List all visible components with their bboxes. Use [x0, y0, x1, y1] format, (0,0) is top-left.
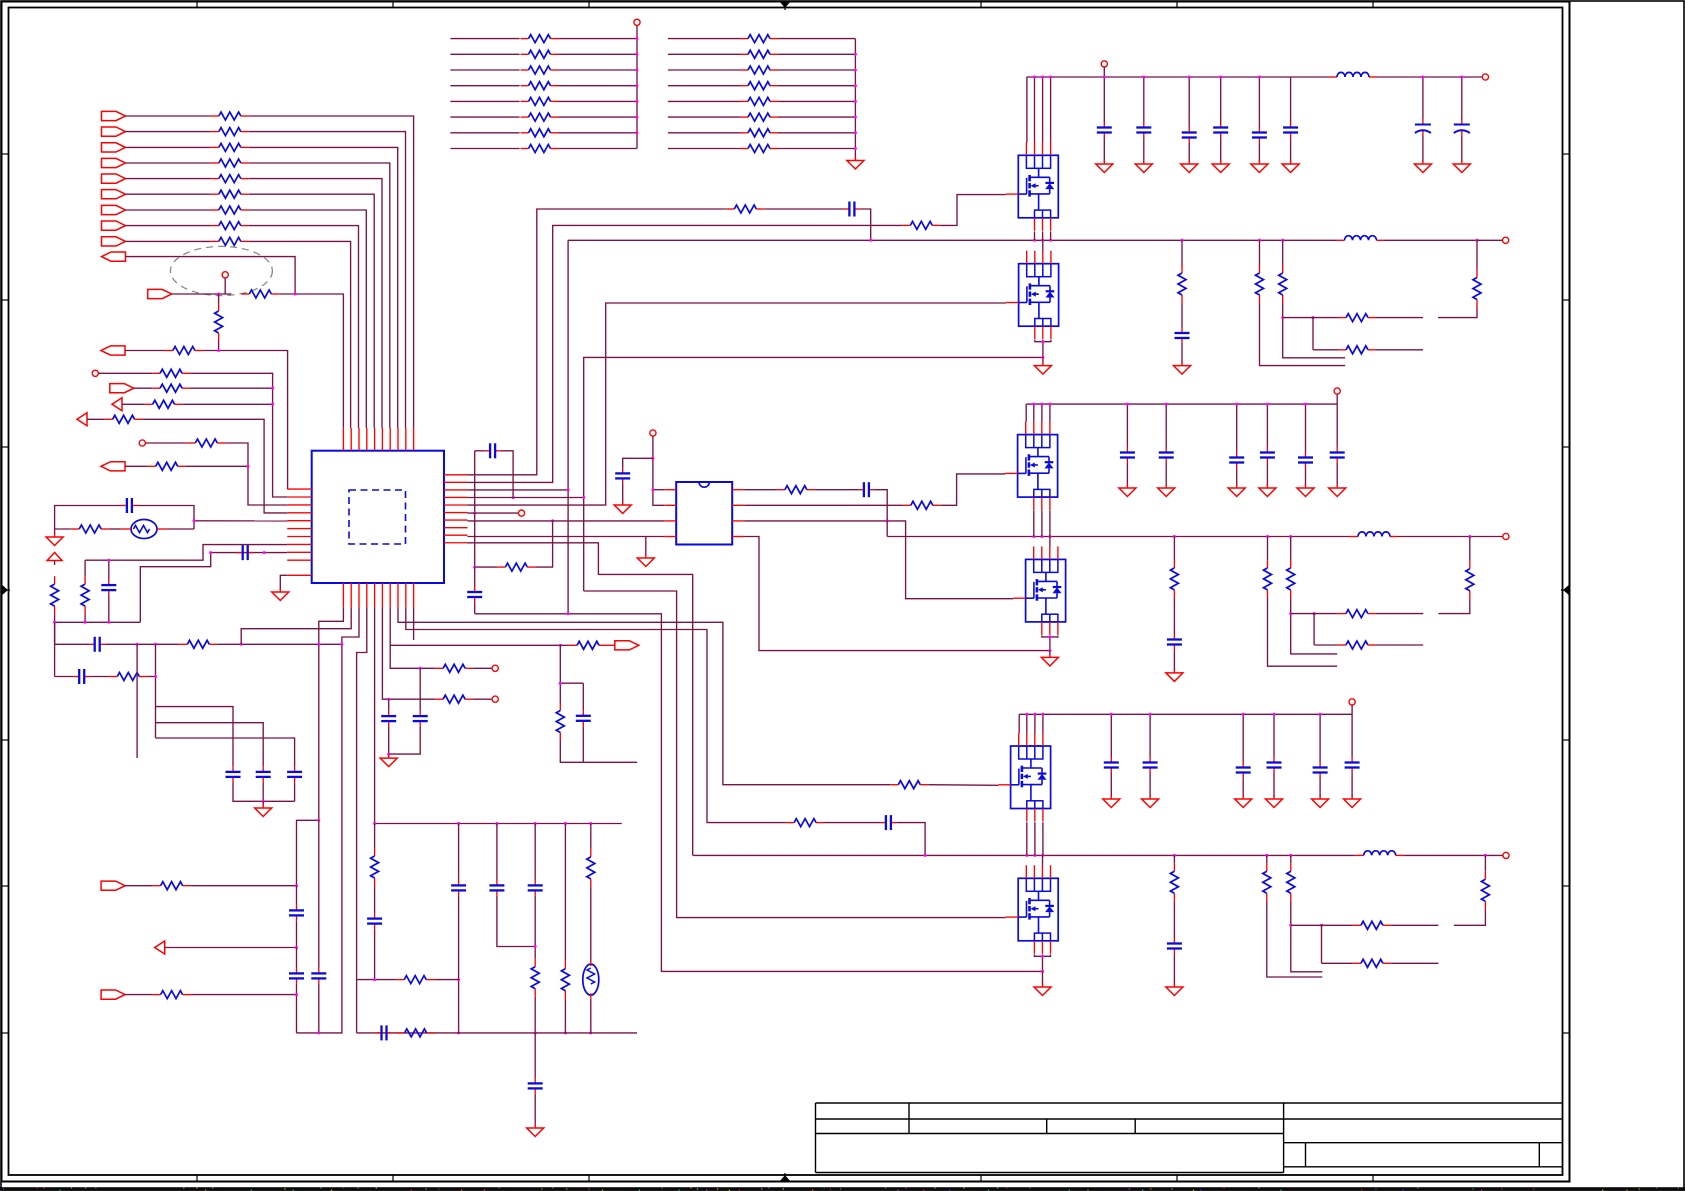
junction j 535 [534, 945, 537, 1034]
ground GND17 [1453, 160, 1470, 173]
port P8 [102, 221, 126, 230]
wire row 1033 left [297, 1032, 343, 1034]
ground GND13 [1212, 160, 1229, 173]
resistor R51 [1466, 561, 1474, 599]
wire out2 v2 [1438, 599, 1469, 614]
wire fb2 rc [1290, 537, 1292, 560]
port P15 [77, 413, 87, 426]
wire q4 s3 [1049, 636, 1051, 651]
ground GND32 [1235, 795, 1252, 808]
wire boot1 cap lead [764, 208, 844, 210]
resistor R49 [1338, 610, 1376, 618]
capacitor C50 [1120, 447, 1135, 463]
wire u2 vt [653, 436, 664, 505]
wire fb1 row1 [1283, 317, 1338, 319]
wire row 567 a [475, 566, 498, 568]
capacitor C2 [237, 545, 253, 560]
wire c23 top [1266, 404, 1268, 447]
wire q4 s2 [1050, 636, 1058, 637]
junction j 466 [247, 465, 250, 468]
wire net A5 a [87, 418, 105, 420]
wire boot3 feed [406, 608, 786, 823]
junction j 565 [564, 1031, 567, 1034]
resistor RV6 [531, 959, 539, 997]
wire col 565 b [564, 999, 566, 1033]
wire pin b1 route [297, 608, 344, 886]
transistor Q4 (power MOSFET module) [1013, 546, 1066, 635]
capacitor CL1 [101, 580, 116, 596]
port P13 [110, 384, 134, 393]
wire swrail2 r [1398, 536, 1470, 538]
ground GND27 [1166, 669, 1183, 682]
capacitor C66 [1167, 938, 1182, 954]
wire c12 bot [1188, 143, 1190, 162]
capacitor C61 [1143, 757, 1158, 773]
wire boot1 to rail [860, 209, 871, 240]
junction j 373-979 [373, 978, 376, 981]
resistor R55 [1353, 921, 1391, 929]
wire net IN3a [126, 146, 211, 148]
resistor R29 [786, 819, 824, 827]
wire c22 bot [1236, 468, 1238, 486]
wire q4 top [1049, 537, 1051, 547]
wire rail3 feed [468, 543, 693, 856]
wire hogate3 b [928, 784, 998, 787]
wire logate3 feed [584, 591, 1006, 918]
wire q5 bot 1042.9 [1042, 822, 1044, 855]
resistor R8 [211, 222, 249, 230]
port P20 [615, 641, 639, 650]
wire fb2 rd [1291, 598, 1338, 654]
terminal TP11 [1503, 237, 1509, 243]
wire q3 top 1033.8 [1033, 404, 1035, 422]
junction j 676 [154, 675, 157, 678]
wire net A3 b [190, 387, 273, 389]
junction j 520 [473, 519, 554, 568]
wire p20 red ext [607, 644, 615, 646]
junction j 994 [295, 993, 298, 996]
wire c22 stem [534, 1033, 536, 1078]
capacitor C64 [1313, 762, 1328, 778]
capacitor C9 [467, 587, 482, 603]
resistor RB8 [740, 145, 778, 153]
resistor R21 [179, 640, 217, 648]
capacitor C18 [451, 880, 466, 896]
junction j 551 [209, 551, 265, 554]
wire q6 s3 [1042, 954, 1044, 971]
wire xtal gnd stub [54, 529, 56, 535]
wire p20 stub [560, 644, 569, 646]
wire rl2 b [84, 614, 86, 622]
wire fb2 row2 b [1376, 644, 1423, 646]
wire rc par cb [582, 726, 584, 762]
wire c42 t [1461, 77, 1463, 119]
ground GND18 [1034, 362, 1051, 375]
wire fb2 row2 [1314, 644, 1338, 646]
wire fb2 row1 b [1376, 613, 1423, 615]
capacitor C4 [74, 669, 90, 684]
wire net IN5a [126, 178, 211, 180]
wire u2 pin1 wire [653, 489, 664, 491]
resistor R19 [148, 462, 186, 470]
junction j xtal [193, 519, 196, 522]
wire rv2 a [374, 824, 376, 849]
wire net TA7b [559, 132, 638, 134]
capacitor C10 [844, 202, 860, 217]
wire c20 top [1126, 404, 1128, 447]
wire col 319 b [318, 984, 320, 1033]
wire col 458 [458, 824, 460, 880]
wire out3 v2 [1454, 909, 1486, 925]
wire net TB2a [668, 53, 740, 55]
resistor R7 [211, 206, 249, 214]
port P9 [102, 237, 126, 246]
terminal TP9 [1101, 61, 1107, 67]
wire rail2 [1026, 403, 1337, 405]
wire q5 bot 1034.9 [1034, 822, 1036, 855]
resistor R2 [211, 128, 249, 136]
wire rail1 left [1026, 76, 1028, 78]
wire net TA6a [450, 116, 519, 118]
wire fb1 rd [1283, 303, 1346, 358]
port P4 [102, 158, 126, 167]
junction j 668 [419, 667, 422, 670]
wire hogate1 b [940, 195, 1006, 226]
capacitor C60 [1104, 757, 1119, 773]
resistor R26 [777, 486, 815, 494]
wire net TB2b [778, 53, 855, 55]
wire row 1033 [357, 1032, 637, 1034]
junction j 644 [136, 643, 321, 646]
junction q2 sj [1041, 340, 1044, 359]
wire net TA8a [450, 148, 519, 150]
ground GND36 [1034, 983, 1051, 996]
wire rail1 r [1291, 76, 1329, 78]
wire c15 bot [1290, 138, 1292, 162]
wire tp12 stub [1336, 394, 1338, 404]
wire q1 bot 1050.6 [1050, 232, 1052, 241]
terminal TP10 [1482, 74, 1488, 80]
ground GND34 [1312, 795, 1329, 808]
wire net TA3b [559, 69, 638, 71]
wire swrail2 [887, 536, 1350, 538]
resistor R40 [1178, 265, 1186, 303]
wire c31 bot [1149, 773, 1151, 797]
wire rc par rb [560, 741, 583, 763]
ground GND37 [1166, 983, 1183, 996]
capacitor C3 [89, 637, 105, 652]
capacitor C41 (polarized) [1415, 119, 1431, 136]
resistor R9 [211, 237, 249, 245]
ground GND31 [1142, 795, 1159, 808]
wire c42 b [1461, 136, 1463, 162]
resistor RB2 [740, 50, 778, 58]
capacitor C16 [311, 968, 326, 984]
wire col 565 a [564, 824, 566, 961]
wire c12 top [1188, 77, 1190, 127]
wire q2 top [1042, 240, 1044, 251]
resistor RB3 [740, 66, 778, 74]
wire net IN7a [126, 209, 211, 211]
junction j 699 [387, 698, 390, 701]
wire net TA5b [559, 100, 638, 102]
wire net TB4b [778, 85, 855, 87]
resistor R48 [1287, 560, 1295, 598]
junction j 497 [512, 496, 515, 499]
resistor RB4 [740, 82, 778, 90]
wire col 356 [356, 980, 358, 1033]
wire c34 bot [1319, 778, 1321, 797]
wire q4 gnd stem [1049, 651, 1051, 656]
wire net TA1a [450, 38, 519, 40]
wire col 296 d [296, 984, 298, 1033]
wire logate2 route b [744, 521, 1013, 599]
wire net A4 a [122, 403, 145, 405]
wire q5 top 1026.8 [1026, 714, 1028, 733]
ground GND8 [380, 754, 397, 767]
terminal TP6 [650, 430, 656, 436]
wire row 644.3 b [105, 643, 179, 645]
wire q5 top 1034.9 [1034, 714, 1036, 733]
capacitor C62 [1236, 762, 1251, 778]
wire fb1 row1 b [1376, 317, 1423, 319]
wire fb2 rb [1268, 598, 1338, 666]
resistor R16 [145, 400, 183, 408]
wire col 497 b [497, 896, 535, 947]
wire c24 a [419, 668, 421, 710]
wire fb1 row2 v [1312, 318, 1314, 350]
wire c7 b [294, 782, 296, 801]
wire boot2 a [744, 489, 777, 491]
capacitor C8 [485, 443, 501, 458]
wire u2 cap gnd [622, 484, 624, 503]
resistor RB1 [740, 35, 778, 43]
wire q3 top 1049.9 [1049, 404, 1051, 422]
wire net IN4a [126, 162, 211, 164]
resistor R13 [165, 347, 203, 355]
capacitor C13 [880, 815, 896, 830]
wire swrail3 r [1404, 854, 1486, 856]
wire gnd stem [262, 801, 264, 806]
driver IC U2 [664, 482, 744, 545]
ground GND35 [1344, 795, 1361, 808]
wire rail3 [1019, 713, 1352, 715]
junction q3 rail joints [1032, 403, 1051, 406]
wire net TB7a [668, 132, 740, 134]
wire net TB6a [668, 116, 740, 118]
wire u2 pin4 gnd [645, 537, 647, 557]
wire swrail1 [568, 239, 1336, 241]
wire sn1 a [1181, 240, 1183, 265]
junction j 568-614 [567, 612, 570, 615]
capacitor C56 [1167, 634, 1182, 650]
wire q2 gnd stem [1042, 357, 1044, 363]
wire col 590 b [590, 887, 592, 965]
wire q6 gnd stem [1042, 971, 1044, 985]
junction q1 rail joints [1033, 76, 1052, 79]
wire net TB7b [778, 132, 855, 134]
capacitor C7 [287, 766, 302, 782]
wire swrail3 [693, 854, 1356, 856]
wire sw2 term [1470, 536, 1503, 538]
wire c13 top [1220, 77, 1222, 122]
wire net IN9a [126, 240, 211, 242]
junction j 458 [457, 978, 460, 1034]
wire row 622.3 [55, 621, 141, 623]
wire c15 top [1290, 77, 1292, 122]
ground GND25 [1329, 484, 1346, 497]
wire fb3 row2 [1322, 962, 1353, 964]
wire c21 top [1165, 404, 1167, 447]
wire n474 capleft [475, 450, 485, 452]
wire net TB3a [668, 69, 740, 71]
wire rc par ct [582, 683, 584, 710]
wire sw3 term [1485, 854, 1503, 856]
wire q2 s3 [1042, 340, 1044, 358]
wire c9 stem [474, 603, 476, 614]
wire xtal row b [109, 528, 120, 530]
wire c33 top [1273, 714, 1275, 757]
wire pb2 [165, 947, 297, 949]
wire c10 bot [1103, 138, 1105, 162]
wire net A3 a [134, 387, 152, 389]
resistor R53 [1263, 863, 1271, 901]
terminal TP12 [1334, 388, 1340, 394]
wire q4 s1 [1042, 636, 1050, 637]
junction j u2 [651, 457, 654, 491]
wire rc par topw [560, 682, 583, 684]
ground GND14 [1251, 160, 1268, 173]
wire net IN3b [249, 147, 398, 428]
wire rail 824 [375, 823, 622, 825]
wire c11 top [1143, 77, 1145, 122]
wire p20 row [390, 644, 560, 646]
capacitor C1 [121, 498, 137, 513]
wire row 567 b [535, 521, 552, 567]
wire pin b10 stub [413, 608, 415, 640]
wire net A7 a [125, 465, 148, 467]
wire net TA5a [450, 100, 519, 102]
ground GND12 [1181, 160, 1198, 173]
title block [816, 1103, 1563, 1173]
resistor RL2 [81, 576, 89, 614]
wire rail1 [1027, 76, 1291, 78]
wire col 296 c [296, 948, 298, 968]
resistor RA3 [521, 66, 559, 74]
wire logate1 feed [468, 303, 1007, 505]
capacitor C21 [376, 1025, 392, 1040]
wire c35 top [1351, 714, 1353, 757]
wire term row2 feed [382, 608, 435, 700]
capacitor C19 [489, 880, 504, 896]
resistor R30 [153, 882, 191, 890]
resistor RV2 [371, 848, 379, 886]
junction j 590 [589, 1031, 592, 1034]
wire q5 top 1042.9 [1042, 714, 1044, 733]
wire net TA2b [559, 53, 638, 55]
wire q6 s1 [1034, 954, 1042, 956]
wire col 535 c [534, 997, 536, 1033]
resistor R41 [1256, 265, 1264, 303]
wire q5 bot 1026.8 [1026, 822, 1028, 855]
ground GND2 [46, 533, 63, 546]
wire c32 bot [1242, 778, 1244, 797]
resistor RV3 [561, 961, 569, 999]
wire hogate1 feed [468, 225, 903, 482]
resistor R57 [1481, 871, 1489, 909]
junction q6 sj [1041, 955, 1044, 973]
wire col 137 [136, 644, 138, 758]
capacitor C51 [1159, 447, 1174, 463]
capacitor C14 [289, 905, 304, 921]
wire boot2 c [874, 490, 887, 537]
wire net TB5a [668, 100, 740, 102]
ground GND21 [1158, 484, 1175, 497]
port P17 [101, 881, 125, 890]
wire net IN5b [249, 179, 382, 428]
wire row 551.9 [140, 553, 287, 623]
resistor R6 [211, 190, 249, 198]
wire net XIN a [172, 293, 232, 295]
resistor R45 [1473, 270, 1481, 308]
wire q3 bot 1041.9 [1041, 510, 1043, 536]
junction rail1 joints [1103, 76, 1261, 79]
wire net TB6b [778, 116, 855, 118]
ground GND16 [1414, 160, 1431, 173]
wire c25 top [1336, 404, 1338, 447]
capacitor C15 [289, 968, 304, 984]
capacitor C32 [1182, 127, 1197, 143]
wire net RV1 b [218, 341, 220, 351]
wire pin b3 route [342, 608, 359, 1033]
capacitor C53 [1260, 447, 1275, 463]
junction rail1 out joints [1421, 76, 1463, 79]
capacitor C35 [1283, 122, 1298, 138]
wire net TA4a [450, 85, 519, 87]
wire c11 bot [1143, 138, 1145, 162]
wire c33 bot [1273, 773, 1275, 797]
wire net A6 b [225, 443, 287, 505]
wire rc par top [559, 683, 561, 702]
ground GND1 [847, 157, 864, 170]
resistor R23 [497, 563, 535, 571]
ground GND6 [637, 554, 654, 567]
wire xtal to IC [194, 520, 287, 522]
resistor RV4 [587, 849, 595, 887]
wire src3 feed [475, 614, 1043, 972]
wire col 54 to 644 [54, 622, 56, 644]
wire net IN8b [249, 226, 359, 428]
resistor R31 [153, 991, 191, 999]
capacitor C23 [381, 711, 396, 727]
wire fb3 row1 b [1391, 924, 1439, 926]
wire sn3 b [1173, 901, 1175, 938]
transistor Q2 (power MOSFET module) [1006, 251, 1059, 340]
wire q1 bot 1042.6 [1042, 232, 1044, 241]
wire q6 s2 [1043, 954, 1051, 956]
wire net TA1b [559, 38, 638, 40]
wire c20 bot [1126, 463, 1128, 486]
wire col 535 b [534, 896, 536, 959]
capacitor C34 [1252, 127, 1267, 143]
capacitor C65 [1345, 757, 1360, 773]
wire xtal row [55, 528, 72, 530]
wire fb2 row1 [1291, 613, 1338, 615]
wire q2 s1 [1035, 340, 1043, 342]
junction j 1033a [317, 1031, 320, 1034]
wire rl1 b [54, 614, 56, 676]
junction j 801 [262, 800, 265, 803]
